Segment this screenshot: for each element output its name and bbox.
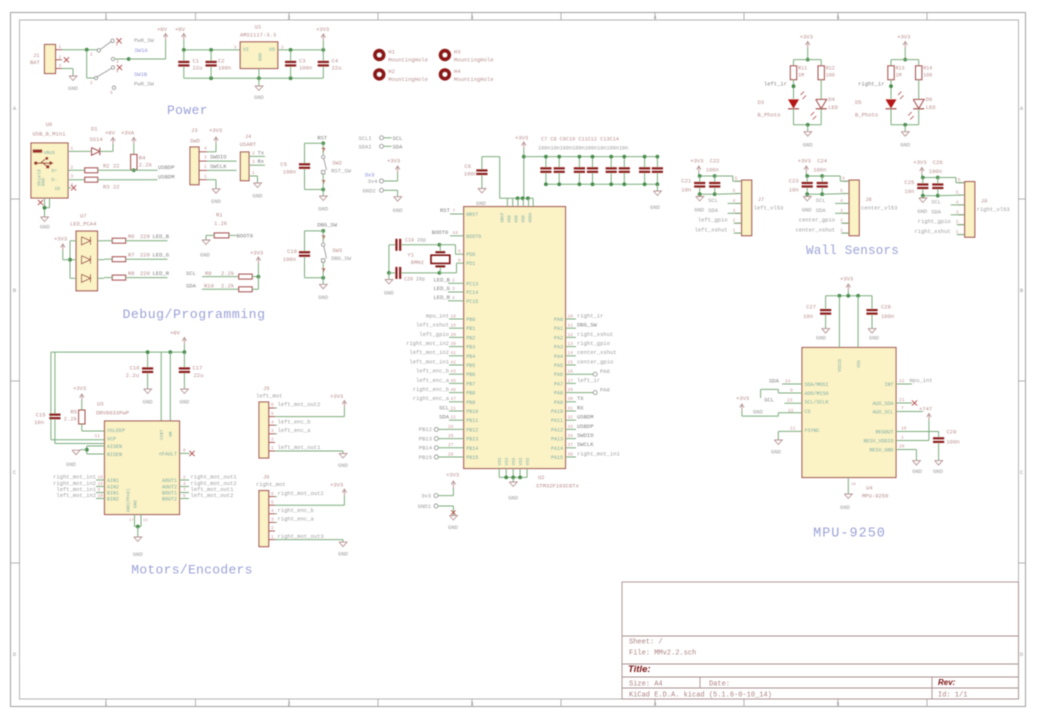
svg-text:100n: 100n bbox=[283, 256, 296, 263]
svg-text:D3: D3 bbox=[758, 99, 765, 106]
svg-text:R2: R2 bbox=[103, 162, 110, 169]
svg-text:2: 2 bbox=[204, 164, 207, 170]
svg-text:SDAI: SDAI bbox=[359, 144, 372, 151]
svg-text:right_mot: right_mot bbox=[256, 481, 286, 488]
svg-text:R4: R4 bbox=[139, 155, 146, 162]
svg-text:3: 3 bbox=[59, 63, 62, 69]
svg-text:SCL: SCL bbox=[764, 396, 774, 403]
svg-text:C16: C16 bbox=[130, 365, 140, 372]
svg-text:U1: U1 bbox=[255, 24, 262, 31]
svg-text:D6: D6 bbox=[926, 96, 933, 103]
svg-text:right_gpio: right_gpio bbox=[577, 340, 610, 347]
svg-text:J8: J8 bbox=[865, 196, 872, 203]
svg-text:left_ir: left_ir bbox=[764, 80, 787, 87]
svg-text:100n: 100n bbox=[929, 168, 942, 175]
svg-text:7: 7 bbox=[183, 487, 186, 493]
svg-text:SCL: SCL bbox=[439, 404, 449, 411]
svg-text:220: 220 bbox=[140, 233, 150, 240]
svg-text:1M: 1M bbox=[896, 73, 902, 79]
svg-text:3v3: 3v3 bbox=[421, 493, 431, 500]
svg-text:+747: +747 bbox=[919, 406, 932, 413]
svg-text:R6: R6 bbox=[128, 233, 135, 240]
svg-text:LED: LED bbox=[926, 104, 937, 111]
svg-text:GND: GND bbox=[253, 193, 264, 200]
svg-text:4: 4 bbox=[183, 481, 186, 487]
svg-text:PA0: PA0 bbox=[554, 317, 563, 323]
svg-text:C7 C8 C9C10 C11C12 C13C14: C7 C8 C9C10 C11C12 C13C14 bbox=[541, 137, 619, 143]
svg-text:25: 25 bbox=[448, 424, 454, 430]
svg-text:+3V3: +3V3 bbox=[316, 26, 329, 33]
svg-text:KiCad E.D.A. kicad (5.1.6-0-1: KiCad E.D.A. kicad (5.1.6-0-10_14) bbox=[629, 692, 772, 700]
svg-text:GND: GND bbox=[318, 206, 329, 213]
svg-text:PA6: PA6 bbox=[600, 368, 610, 375]
svg-text:left_mot_in2: left_mot_in2 bbox=[56, 492, 96, 499]
svg-text:4: 4 bbox=[271, 419, 274, 425]
svg-text:VDD: VDD bbox=[508, 215, 512, 223]
svg-text:C26: C26 bbox=[933, 159, 943, 166]
svg-text:GND: GND bbox=[448, 524, 459, 531]
svg-text:220: 220 bbox=[140, 270, 150, 277]
svg-text:H1: H1 bbox=[388, 49, 395, 56]
svg-text:PB1: PB1 bbox=[466, 326, 475, 332]
svg-text:U2: U2 bbox=[538, 474, 545, 481]
svg-text:PB13: PB13 bbox=[419, 435, 432, 442]
svg-text:12: 12 bbox=[143, 519, 148, 523]
svg-text:1: 1 bbox=[204, 173, 207, 179]
svg-text:right_xshut: right_xshut bbox=[577, 331, 613, 338]
svg-text:5: 5 bbox=[840, 188, 843, 194]
svg-text:left_enc_b: left_enc_b bbox=[416, 368, 449, 375]
svg-text:center_xshut: center_xshut bbox=[577, 349, 617, 356]
svg-text:Title:: Title: bbox=[628, 664, 651, 675]
svg-text:3: 3 bbox=[116, 59, 119, 65]
svg-text:LED_R: LED_R bbox=[433, 294, 450, 301]
svg-text:GND: GND bbox=[508, 495, 519, 502]
svg-text:3v4: 3v4 bbox=[368, 178, 379, 185]
svg-text:left_xshut: left_xshut bbox=[695, 227, 728, 234]
svg-text:1M: 1M bbox=[798, 73, 804, 79]
svg-text:USB_B_Mini: USB_B_Mini bbox=[32, 131, 66, 138]
svg-text:RESV_GND: RESV_GND bbox=[869, 448, 893, 454]
svg-text:right_enc_a: right_enc_a bbox=[278, 516, 315, 523]
svg-text:SWDIO: SWDIO bbox=[577, 432, 594, 439]
svg-text:right_mot_in2: right_mot_in2 bbox=[406, 340, 449, 347]
svg-text:+3V3: +3V3 bbox=[73, 385, 86, 392]
svg-text:2: 2 bbox=[252, 150, 255, 156]
svg-text:2.2u: 2.2u bbox=[126, 372, 139, 379]
svg-text:PA12: PA12 bbox=[551, 427, 563, 433]
svg-text:3: 3 bbox=[470, 15, 473, 21]
svg-text:SWCLK: SWCLK bbox=[210, 163, 227, 170]
svg-text:GND: GND bbox=[384, 290, 395, 297]
svg-text:SWD: SWD bbox=[190, 138, 201, 145]
svg-text:Y1: Y1 bbox=[407, 252, 414, 259]
svg-text:10n: 10n bbox=[34, 419, 44, 426]
svg-text:3: 3 bbox=[470, 702, 473, 708]
svg-text:4: 4 bbox=[653, 702, 656, 708]
svg-text:7: 7 bbox=[901, 406, 904, 412]
svg-text:3: 3 bbox=[204, 155, 207, 161]
svg-text:10n: 10n bbox=[803, 313, 813, 320]
svg-text:D4: D4 bbox=[828, 96, 835, 103]
svg-text:20: 20 bbox=[899, 444, 905, 450]
svg-text:3: 3 bbox=[234, 45, 237, 51]
svg-text:FSYNC: FSYNC bbox=[805, 428, 820, 434]
svg-text:RST_SW: RST_SW bbox=[331, 167, 352, 174]
svg-text:R14: R14 bbox=[923, 66, 932, 72]
svg-text:GND: GND bbox=[40, 224, 51, 231]
svg-text:right_gpio: right_gpio bbox=[918, 218, 951, 225]
svg-text:PB14: PB14 bbox=[466, 446, 478, 452]
svg-text:1: 1 bbox=[71, 146, 74, 152]
svg-text:100n: 100n bbox=[464, 171, 477, 178]
svg-text:PA14: PA14 bbox=[551, 446, 563, 452]
svg-text:SCL: SCL bbox=[393, 135, 403, 142]
svg-text:1: 1 bbox=[271, 445, 274, 451]
svg-text:H2: H2 bbox=[388, 68, 395, 75]
svg-text:+3V3: +3V3 bbox=[209, 127, 222, 134]
svg-text:C20: C20 bbox=[404, 277, 413, 283]
svg-text:10n: 10n bbox=[789, 187, 799, 194]
svg-text:6: 6 bbox=[735, 176, 738, 182]
svg-text:C6: C6 bbox=[464, 163, 471, 170]
svg-text:VSS: VSS bbox=[498, 457, 503, 465]
svg-text:left_mot_out1: left_mot_out1 bbox=[278, 444, 322, 451]
svg-text:PA7: PA7 bbox=[554, 381, 563, 387]
svg-text:+3VA: +3VA bbox=[121, 130, 135, 137]
svg-text:PB2: PB2 bbox=[466, 335, 475, 341]
svg-text:MountingHole: MountingHole bbox=[388, 57, 428, 64]
svg-text:PB5: PB5 bbox=[466, 363, 475, 369]
svg-text:7: 7 bbox=[453, 208, 456, 214]
svg-text:100: 100 bbox=[826, 73, 835, 79]
svg-text:Rx: Rx bbox=[258, 158, 265, 165]
svg-text:SCL: SCL bbox=[186, 270, 196, 277]
svg-text:+8V: +8V bbox=[105, 130, 116, 137]
svg-text:6: 6 bbox=[271, 491, 274, 497]
svg-text:C28: C28 bbox=[881, 304, 891, 311]
svg-text:R8: R8 bbox=[128, 270, 135, 277]
svg-text:left_mot_in2: left_mot_in2 bbox=[409, 349, 449, 356]
svg-text:PB9: PB9 bbox=[466, 400, 475, 406]
svg-text:12: 12 bbox=[899, 378, 905, 384]
svg-text:PB12: PB12 bbox=[466, 427, 478, 433]
svg-text:26: 26 bbox=[448, 433, 454, 439]
svg-text:5: 5 bbox=[110, 90, 113, 96]
svg-text:3: 3 bbox=[71, 174, 74, 180]
svg-text:GND: GND bbox=[476, 200, 487, 207]
svg-text:GND: GND bbox=[66, 461, 77, 468]
svg-text:PA1: PA1 bbox=[554, 326, 563, 332]
svg-text:AISEN: AISEN bbox=[107, 444, 122, 450]
svg-text:SCLI: SCLI bbox=[359, 135, 372, 142]
svg-text:100n: 100n bbox=[299, 65, 312, 72]
svg-text:C4: C4 bbox=[332, 58, 339, 65]
svg-text:2: 2 bbox=[90, 52, 93, 58]
svg-text:GND: GND bbox=[933, 468, 944, 475]
svg-text:SWCLK: SWCLK bbox=[577, 441, 594, 448]
svg-text:BISEN: BISEN bbox=[107, 452, 122, 458]
svg-text:BOOT0: BOOT0 bbox=[432, 229, 449, 236]
svg-text:5: 5 bbox=[733, 188, 736, 194]
svg-text:+3V3: +3V3 bbox=[913, 159, 926, 166]
svg-text:Wall Sensors: Wall Sensors bbox=[806, 244, 899, 258]
svg-text:GND1: GND1 bbox=[418, 503, 432, 510]
svg-text:LED: LED bbox=[828, 104, 839, 111]
svg-text:SCL: SCL bbox=[708, 197, 718, 204]
svg-text:R13: R13 bbox=[896, 66, 905, 72]
svg-text:LED_R: LED_R bbox=[153, 270, 170, 277]
svg-text:PA6: PA6 bbox=[554, 372, 563, 378]
svg-text:INT: INT bbox=[884, 382, 893, 388]
svg-text:left_xshut: left_xshut bbox=[416, 322, 449, 329]
svg-text:5: 5 bbox=[956, 190, 959, 196]
svg-text:SW2: SW2 bbox=[332, 159, 342, 166]
svg-text:C23: C23 bbox=[789, 178, 799, 185]
svg-text:AMS1117-3.3: AMS1117-3.3 bbox=[240, 32, 276, 39]
svg-text:BOOT0: BOOT0 bbox=[466, 234, 481, 240]
svg-text:mpu_int: mpu_int bbox=[910, 377, 933, 384]
svg-text:C22: C22 bbox=[710, 158, 720, 165]
svg-text:left_ir: left_ir bbox=[577, 377, 600, 384]
svg-text:Power: Power bbox=[167, 103, 208, 118]
svg-text:USBDM: USBDM bbox=[577, 414, 594, 421]
svg-text:D-: D- bbox=[51, 177, 57, 183]
svg-text:BAT: BAT bbox=[30, 59, 41, 66]
svg-text:PA13: PA13 bbox=[551, 437, 563, 443]
svg-text:PA8: PA8 bbox=[554, 391, 563, 397]
svg-text:1: 1 bbox=[104, 702, 107, 708]
svg-text:+8V: +8V bbox=[170, 330, 181, 337]
svg-text:SDA: SDA bbox=[439, 414, 450, 421]
svg-text:PA10: PA10 bbox=[551, 409, 563, 415]
svg-text:+3V3: +3V3 bbox=[330, 482, 343, 489]
svg-text:SW1B: SW1B bbox=[134, 71, 148, 78]
svg-text:nSLEEP: nSLEEP bbox=[107, 428, 125, 434]
svg-text:PB6: PB6 bbox=[466, 372, 475, 378]
svg-text:R11: R11 bbox=[798, 66, 807, 72]
svg-text:SCL/SCLK: SCL/SCLK bbox=[805, 400, 829, 406]
svg-text:RX: RX bbox=[577, 404, 584, 411]
svg-text:VINT: VINT bbox=[160, 429, 165, 440]
svg-text:right_mot_out3: right_mot_out3 bbox=[278, 533, 324, 540]
svg-text:D+: D+ bbox=[51, 168, 57, 174]
svg-text:LED_G: LED_G bbox=[433, 285, 450, 292]
svg-text:VSS: VSS bbox=[512, 457, 517, 465]
svg-text:AUX_SDA: AUX_SDA bbox=[872, 401, 893, 407]
svg-text:left_mot: left_mot bbox=[256, 393, 282, 400]
svg-text:22u: 22u bbox=[193, 65, 203, 72]
svg-text:SS14: SS14 bbox=[90, 136, 104, 143]
svg-text:VSS: VSS bbox=[526, 457, 531, 465]
svg-text:22u: 22u bbox=[194, 372, 204, 379]
svg-text:VDD: VDD bbox=[857, 360, 862, 368]
svg-text:5: 5 bbox=[836, 702, 839, 708]
svg-text:PD1: PD1 bbox=[466, 261, 475, 267]
svg-text:5: 5 bbox=[458, 248, 461, 254]
svg-text:GND: GND bbox=[143, 399, 154, 406]
svg-text:10n: 10n bbox=[904, 188, 914, 195]
svg-text:4: 4 bbox=[71, 182, 74, 188]
svg-text:D5: D5 bbox=[855, 99, 862, 106]
svg-text:5: 5 bbox=[183, 493, 186, 499]
svg-text:2: 2 bbox=[287, 15, 290, 21]
svg-text:MPU-9250: MPU-9250 bbox=[813, 527, 886, 542]
svg-text:PD0: PD0 bbox=[466, 252, 475, 258]
svg-text:PB4: PB4 bbox=[466, 354, 475, 360]
svg-text:20p: 20p bbox=[416, 277, 425, 283]
svg-text:PA5: PA5 bbox=[554, 363, 563, 369]
svg-text:left_gpio: left_gpio bbox=[419, 331, 449, 338]
svg-text:RST: RST bbox=[440, 207, 451, 214]
svg-text:SDA: SDA bbox=[393, 144, 404, 151]
svg-text:4: 4 bbox=[271, 508, 274, 514]
svg-text:C25: C25 bbox=[904, 179, 914, 186]
svg-text:J6: J6 bbox=[263, 474, 270, 481]
svg-text:PA4: PA4 bbox=[554, 354, 563, 360]
svg-text:+8V: +8V bbox=[175, 26, 186, 33]
svg-text:PB13: PB13 bbox=[466, 437, 478, 443]
svg-text:J7: J7 bbox=[758, 196, 765, 203]
svg-text:VI: VI bbox=[243, 47, 249, 53]
svg-text:GND: GND bbox=[694, 207, 705, 214]
svg-text:right_enc_a: right_enc_a bbox=[413, 395, 450, 402]
svg-text:6: 6 bbox=[458, 257, 461, 263]
svg-text:DRV8833PwP: DRV8833PwP bbox=[96, 410, 129, 417]
svg-text:USART: USART bbox=[240, 141, 257, 148]
svg-text:GND: GND bbox=[753, 408, 764, 415]
svg-text:left_mot_out2: left_mot_out2 bbox=[191, 492, 234, 499]
svg-text:Sheet: /: Sheet: / bbox=[629, 639, 663, 647]
svg-text:GND: GND bbox=[912, 468, 923, 475]
svg-text:GND: GND bbox=[840, 504, 851, 511]
svg-text:J5: J5 bbox=[263, 385, 270, 392]
svg-text:PB0: PB0 bbox=[466, 317, 475, 323]
svg-text:C1: C1 bbox=[193, 58, 200, 65]
svg-text:left_enc_a: left_enc_a bbox=[416, 377, 450, 384]
svg-text:USBDP: USBDP bbox=[158, 164, 175, 171]
svg-text:PB7: PB7 bbox=[466, 381, 475, 387]
svg-text:MountingHole: MountingHole bbox=[454, 76, 494, 83]
svg-text:C5: C5 bbox=[280, 161, 287, 168]
svg-text:2.2k: 2.2k bbox=[221, 270, 235, 277]
svg-text:H3: H3 bbox=[454, 49, 461, 56]
svg-text:VDDA: VDDA bbox=[529, 212, 533, 223]
svg-text:100n: 100n bbox=[947, 439, 960, 446]
svg-text:mpu_int: mpu_int bbox=[426, 312, 449, 319]
svg-text:3: 3 bbox=[271, 428, 274, 434]
svg-text:8: 8 bbox=[183, 447, 186, 453]
svg-text:C2: C2 bbox=[218, 58, 225, 65]
svg-text:2.2k: 2.2k bbox=[64, 416, 78, 423]
svg-text:17: 17 bbox=[129, 519, 134, 523]
svg-text:DBG_SW: DBG_SW bbox=[317, 222, 338, 229]
svg-text:DBG_SW: DBG_SW bbox=[577, 322, 598, 329]
svg-text:VSS: VSS bbox=[505, 457, 510, 465]
svg-text:C3: C3 bbox=[299, 58, 306, 65]
svg-text:GND2: GND2 bbox=[363, 187, 376, 194]
svg-text:left_gpio: left_gpio bbox=[698, 217, 728, 224]
svg-text:8MHz: 8MHz bbox=[411, 259, 424, 266]
svg-text:VM: VM bbox=[169, 431, 174, 437]
svg-text:SDA: SDA bbox=[931, 208, 942, 215]
svg-text:B_Photo: B_Photo bbox=[855, 112, 878, 119]
svg-text:5: 5 bbox=[271, 411, 274, 417]
svg-text:R9: R9 bbox=[205, 270, 212, 277]
svg-text:REGOUT: REGOUT bbox=[875, 430, 893, 436]
svg-text:+3V3: +3V3 bbox=[515, 135, 528, 142]
svg-text:BOOT0: BOOT0 bbox=[237, 233, 254, 240]
svg-text:GND: GND bbox=[258, 52, 264, 61]
svg-text:2: 2 bbox=[59, 54, 62, 60]
svg-text:R1: R1 bbox=[216, 212, 223, 219]
svg-text:SDA/MOSI: SDA/MOSI bbox=[805, 382, 829, 388]
svg-text:1: 1 bbox=[271, 534, 274, 540]
svg-text:right_ir: right_ir bbox=[858, 80, 884, 87]
svg-text:MountingHole: MountingHole bbox=[454, 57, 494, 64]
svg-text:Rev:: Rev: bbox=[938, 678, 956, 687]
svg-text:C19: C19 bbox=[405, 238, 414, 244]
svg-text:2: 2 bbox=[90, 80, 93, 86]
svg-text:22: 22 bbox=[113, 183, 120, 190]
svg-text:1: 1 bbox=[104, 15, 107, 21]
svg-text:GND: GND bbox=[803, 142, 814, 149]
svg-text:1.2k: 1.2k bbox=[214, 220, 228, 227]
svg-text:3: 3 bbox=[452, 286, 455, 292]
svg-text:BOUT2: BOUT2 bbox=[162, 497, 177, 503]
svg-text:GND: GND bbox=[771, 449, 782, 456]
svg-text:100n: 100n bbox=[218, 65, 231, 72]
svg-text:GND: GND bbox=[68, 85, 79, 92]
svg-text:11: 11 bbox=[790, 425, 796, 431]
svg-text:5: 5 bbox=[271, 499, 274, 505]
svg-text:center_vl53: center_vl53 bbox=[861, 205, 897, 212]
svg-text:PA2: PA2 bbox=[554, 335, 563, 341]
svg-text:21: 21 bbox=[899, 397, 905, 403]
svg-text:C18: C18 bbox=[287, 248, 297, 255]
svg-text:R5: R5 bbox=[70, 409, 77, 416]
svg-text:VDD: VDD bbox=[515, 215, 519, 223]
svg-text:BIN2: BIN2 bbox=[107, 497, 119, 503]
svg-text:U7: U7 bbox=[80, 213, 87, 220]
svg-text:C27: C27 bbox=[806, 304, 816, 311]
svg-text:2: 2 bbox=[287, 702, 290, 708]
svg-text:VBAT: VBAT bbox=[501, 212, 505, 223]
svg-text:GND(PPAD): GND(PPAD) bbox=[127, 488, 132, 512]
svg-text:GND: GND bbox=[211, 198, 222, 205]
svg-text:RST: RST bbox=[317, 135, 328, 142]
svg-text:PA11: PA11 bbox=[551, 418, 563, 424]
svg-text:right_ir: right_ir bbox=[577, 312, 603, 319]
svg-text:100n: 100n bbox=[706, 167, 719, 174]
svg-text:R3: R3 bbox=[103, 183, 110, 190]
svg-text:Id: 1/1: Id: 1/1 bbox=[938, 692, 967, 700]
svg-text:1: 1 bbox=[116, 42, 119, 48]
svg-text:J3: J3 bbox=[191, 127, 198, 134]
svg-text:11: 11 bbox=[95, 433, 101, 439]
svg-text:PB8: PB8 bbox=[466, 391, 475, 397]
svg-text:center_xshut: center_xshut bbox=[795, 227, 835, 234]
svg-text:2: 2 bbox=[271, 437, 274, 443]
svg-text:USBDP: USBDP bbox=[577, 423, 594, 430]
svg-text:2.2k: 2.2k bbox=[139, 162, 153, 169]
svg-text:right_enc_b: right_enc_b bbox=[413, 386, 449, 393]
svg-text:SDA: SDA bbox=[186, 282, 197, 289]
svg-text:USBDM: USBDM bbox=[158, 173, 175, 180]
svg-text:SW1A: SW1A bbox=[135, 47, 149, 54]
svg-text:+3V3: +3V3 bbox=[54, 236, 67, 243]
svg-text:H4: H4 bbox=[454, 68, 461, 75]
